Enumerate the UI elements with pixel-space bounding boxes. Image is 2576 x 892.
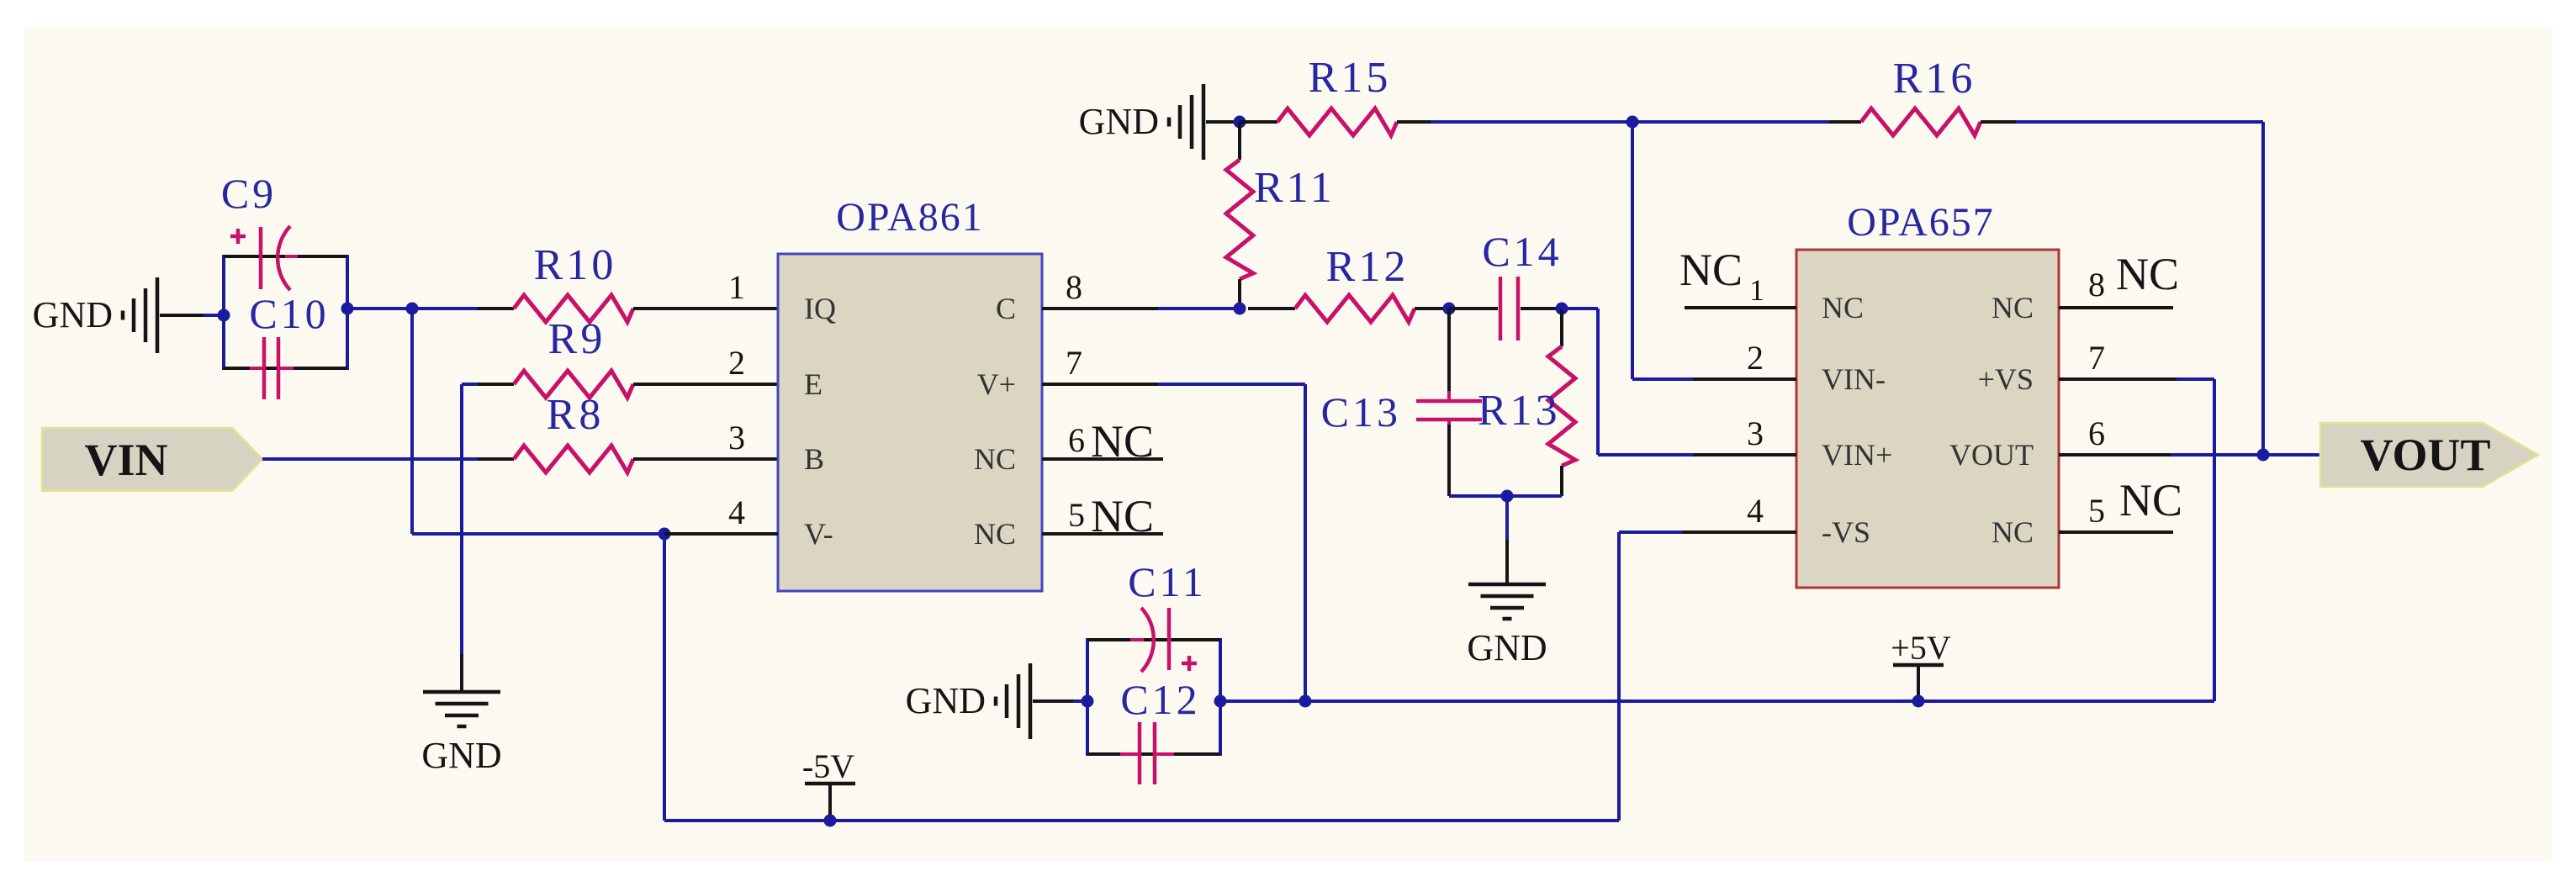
svg-text:VIN+: VIN+ <box>1822 438 1892 472</box>
svg-text:R12: R12 <box>1326 243 1410 291</box>
wire V- node down to -5V rail <box>663 534 666 821</box>
svg-text:NC: NC <box>1822 291 1864 325</box>
wire VOUT to port <box>2263 453 2320 457</box>
svg-text:3: 3 <box>1747 414 1764 452</box>
svg-text:NC: NC <box>1091 491 1154 541</box>
pin 1 number <box>728 268 745 306</box>
node C9/C10 right <box>341 303 354 315</box>
capacitor C10 (bottom of frame) <box>249 290 329 399</box>
svg-text:B: B <box>804 442 824 476</box>
svg-text:R16: R16 <box>1893 55 1976 103</box>
svg-text:R15: R15 <box>1309 54 1392 102</box>
pin 3 lead <box>1693 453 1796 457</box>
svg-text:8: 8 <box>2088 266 2105 303</box>
svg-text:7: 7 <box>1066 344 1082 382</box>
svg-text:6: 6 <box>2088 414 2105 452</box>
svg-text:1: 1 <box>728 268 745 306</box>
svg-text:8: 8 <box>1066 268 1082 306</box>
svg-text:C10: C10 <box>249 290 329 337</box>
svg-text:NC: NC <box>1091 416 1154 467</box>
pin 4 lead <box>1683 530 1796 534</box>
svg-text:-5V: -5V <box>802 747 854 785</box>
pin 5 NC stub <box>1042 491 1163 541</box>
svg-text:NC: NC <box>1679 245 1743 295</box>
wire GND1 to C9/C10 left node <box>204 314 224 317</box>
svg-text:V-: V- <box>804 517 833 551</box>
svg-text:4: 4 <box>728 494 745 531</box>
wire VOUT <box>2171 453 2263 457</box>
svg-text:NC: NC <box>1992 291 2034 325</box>
wire +5V rail <box>1220 699 2214 703</box>
svg-text:2: 2 <box>728 344 745 382</box>
ground GND2 (below R9) <box>421 654 501 776</box>
wire R9 corner to ground <box>462 384 478 654</box>
svg-text:V+: V+ <box>977 367 1016 401</box>
wire -5V rail up to OPA657 -VS <box>1619 532 1683 821</box>
resistor R12 <box>1248 243 1449 322</box>
wire C14 node to VIN+ <box>1562 309 1693 455</box>
wire node A down to V- row <box>410 309 414 534</box>
op-amp U2 OPA657 <box>1796 200 2059 588</box>
wire pin7 V+ to +5V rail <box>1158 384 1305 701</box>
svg-text:1: 1 <box>1749 273 1764 307</box>
svg-text:GND: GND <box>1467 627 1547 668</box>
svg-text:5: 5 <box>2088 492 2105 530</box>
pin 2 number <box>728 344 745 382</box>
svg-text:2: 2 <box>1747 339 1764 377</box>
svg-text:GND: GND <box>906 680 986 721</box>
pin 3 number (OPA657) <box>1747 414 1764 452</box>
node C (pin8 junction) <box>1234 303 1246 315</box>
svg-text:VOUT: VOUT <box>2361 430 2491 480</box>
svg-text:C: C <box>996 292 1016 325</box>
node V+ rail junction <box>1299 695 1312 708</box>
svg-text:C9: C9 <box>221 170 277 217</box>
wire node B down to VIN- <box>1632 122 1693 379</box>
svg-text:GND: GND <box>421 735 501 776</box>
svg-text:+VS: +VS <box>1978 362 2034 396</box>
pin 2 lead <box>1693 377 1796 381</box>
svg-text:NC: NC <box>1992 515 2034 549</box>
svg-text:R13: R13 <box>1478 387 1561 435</box>
wire C13/R13 bottom <box>1449 494 1562 498</box>
node C14/R13 <box>1556 303 1568 315</box>
wire GND3 to C11/C12 <box>1073 699 1087 703</box>
svg-text:R11: R11 <box>1254 164 1336 212</box>
svg-text:OPA657: OPA657 <box>1847 200 1995 245</box>
node C11/C12 left <box>1082 695 1094 708</box>
pin 7 lead <box>1042 383 1158 386</box>
svg-text:+5V: +5V <box>1891 629 1951 667</box>
svg-text:NC: NC <box>2116 249 2179 299</box>
svg-text:C14: C14 <box>1482 228 1562 275</box>
wire -5V rail <box>664 819 1619 822</box>
pin 7 number <box>1066 344 1082 382</box>
node R12/C13/C14 <box>1443 303 1456 315</box>
pin 4 number <box>728 494 745 531</box>
svg-text:IQ: IQ <box>804 292 836 325</box>
resistor R11 (vertical) <box>1226 122 1336 309</box>
capacitor C12 (bottom of frame) <box>1120 676 1201 784</box>
resistor R8 <box>478 391 778 472</box>
resistor R15 <box>1240 54 1431 135</box>
pin 4 number (OPA657) <box>1747 492 1764 530</box>
node V- pin junction <box>659 528 671 541</box>
capacitor C13 (vertical) <box>1321 309 1482 496</box>
wire VIN to R8 <box>262 457 478 461</box>
svg-text:NC: NC <box>974 517 1016 551</box>
pin 1 NC stub (OPA657) <box>1679 245 1796 308</box>
svg-text:-VS: -VS <box>1822 515 1870 549</box>
pin 8 lead <box>1042 307 1158 310</box>
wire C9/C10 to node A <box>347 307 478 310</box>
port VOUT <box>2320 423 2538 487</box>
resistor R16 <box>1632 55 2263 135</box>
svg-text:VIN-: VIN- <box>1822 362 1886 396</box>
svg-text:R10: R10 <box>534 241 617 289</box>
svg-text:3: 3 <box>728 419 745 457</box>
pin 4 lead <box>664 532 778 536</box>
node C13/R13 ground junction <box>1501 490 1514 503</box>
pin 6 lead (OPA657) <box>2059 414 2171 455</box>
pin 8 NC stub (OPA657) <box>2059 249 2179 308</box>
capacitor C9 (polarized, top of frame) <box>221 170 298 290</box>
node C9/C10 left <box>218 309 230 322</box>
capacitor C11 (polarized, top of frame) <box>1128 558 1207 672</box>
port VIN <box>42 428 262 491</box>
ground GND4 (below C13/R13) <box>1467 584 1547 668</box>
wire down to GND4 <box>1505 496 1509 584</box>
pin 8 number <box>1066 268 1082 306</box>
wire V- row horizontal <box>412 532 664 536</box>
svg-text:5: 5 <box>1068 496 1085 534</box>
svg-text:VIN: VIN <box>84 435 167 485</box>
svg-text:VOUT: VOUT <box>1949 438 2034 472</box>
svg-text:GND: GND <box>1079 101 1159 142</box>
pin 5 NC stub (OPA657) <box>2059 475 2182 532</box>
resistor R10 <box>478 241 778 322</box>
node C11/C12 right <box>1214 695 1227 708</box>
svg-text:R8: R8 <box>547 391 605 439</box>
pin 7 lead (OPA657) <box>2059 339 2177 379</box>
pin 2 number (OPA657) <box>1747 339 1764 377</box>
svg-text:NC: NC <box>2119 475 2182 525</box>
resistor R9 <box>478 315 778 398</box>
ground GND5 (top) <box>1079 84 1240 160</box>
wire R16 down to VOUT node <box>2261 122 2265 455</box>
svg-text:GND: GND <box>33 294 113 335</box>
svg-text:7: 7 <box>2088 339 2105 377</box>
power +5V <box>1891 629 1951 708</box>
svg-text:E: E <box>804 367 823 401</box>
pin 6 NC stub <box>1042 416 1163 467</box>
node B (feedback node) <box>1627 116 1639 129</box>
op-amp U1 OPA861 <box>778 195 1042 591</box>
svg-text:R9: R9 <box>548 315 606 363</box>
svg-text:C13: C13 <box>1321 388 1401 435</box>
node R15/R11/GND top <box>1234 116 1246 129</box>
capacitor C14 <box>1449 228 1563 340</box>
svg-text:4: 4 <box>1747 492 1764 530</box>
wire +5V rail up to +VS <box>2177 379 2214 701</box>
svg-text:6: 6 <box>1068 421 1085 459</box>
wire C9/C10 frame <box>224 255 347 370</box>
pin 3 number <box>728 419 745 457</box>
ground GND1 (left of C9/C10) <box>33 277 204 353</box>
ground GND3 (left of C11/C12) <box>906 663 1073 739</box>
svg-text:NC: NC <box>974 442 1016 476</box>
wire R15 to node B <box>1431 120 1632 124</box>
resistor R13 (vertical) <box>1478 309 1575 496</box>
svg-text:C11: C11 <box>1128 558 1207 605</box>
node VOUT <box>2257 449 2270 462</box>
power -5V <box>802 747 855 827</box>
node A (V- bypass node) <box>406 303 419 315</box>
svg-text:OPA861: OPA861 <box>836 195 984 240</box>
wire C11/C12 frame <box>1087 638 1220 756</box>
svg-text:C12: C12 <box>1120 676 1200 723</box>
wire pin8 to node C <box>1158 307 1240 310</box>
